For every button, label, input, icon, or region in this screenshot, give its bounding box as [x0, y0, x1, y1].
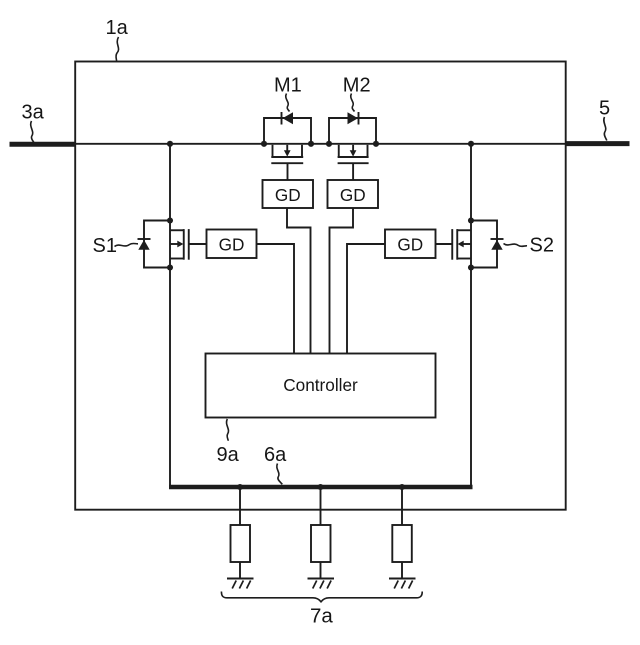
wire: M1 gate driver to controller [287, 208, 311, 354]
ground symbol 3 [389, 579, 416, 589]
wire: M2 body-diode loop [329, 118, 376, 144]
node: S1 source junction [167, 264, 173, 270]
node: bus / S1 branch [167, 141, 173, 147]
ground symbol 1 [227, 579, 254, 589]
label 6a [264, 444, 287, 484]
wire: S2 body-diode loop [471, 221, 497, 268]
label 1a [106, 17, 129, 61]
svg-text:9a: 9a [217, 444, 240, 466]
wire: M2 gate driver to controller [330, 208, 354, 354]
enclosure box 1a [75, 62, 566, 510]
node: S1 drain junction [167, 217, 173, 223]
label 9a [217, 419, 240, 466]
wire: R1 upper lead [239, 487, 241, 525]
svg-text:GD: GD [397, 235, 423, 255]
resistor R2 [311, 525, 331, 562]
controller box [206, 354, 436, 418]
wire: M1 body-diode loop [264, 118, 311, 144]
wire: right branch from bus down to line 6a [470, 144, 472, 485]
node: bus / M2 left [326, 141, 332, 147]
svg-text:GD: GD [340, 185, 366, 205]
resistor R3 [392, 525, 412, 562]
label S2 [504, 235, 554, 257]
gate driver GD box of S2 [385, 230, 436, 259]
wire: R3 upper lead [401, 487, 403, 525]
svg-text:5: 5 [599, 98, 610, 120]
transistor S2 (MOSFET symbol) [436, 229, 472, 260]
svg-text:GD: GD [219, 235, 245, 255]
label M1 [274, 74, 302, 111]
wire: common line 6a (thick) [169, 485, 473, 490]
wire: R2 lower lead [320, 562, 322, 579]
wire: S2 gate driver to controller [347, 244, 385, 354]
gate driver GD box of M1 [263, 180, 314, 208]
gate driver GD box of M2 [328, 180, 379, 208]
node: S2 drain junction [468, 217, 474, 223]
wire: R2 upper lead [320, 487, 322, 525]
transistor M1 (MOSFET symbol) [271, 145, 303, 180]
label M2 [343, 74, 371, 111]
diode: S1 body diode (cathode up) [138, 239, 151, 250]
svg-text:S2: S2 [530, 235, 554, 257]
wire: S1 body-diode loop [144, 221, 170, 268]
node: 6a / R3 tap [399, 484, 405, 490]
label S1 [93, 235, 139, 257]
wire: R1 lower lead [239, 562, 241, 579]
node: S2 source junction [468, 264, 474, 270]
gate driver GD box of S1 [207, 230, 257, 259]
node: bus / M2 right [373, 141, 379, 147]
diode: S2 body diode (cathode up) [491, 239, 504, 250]
node: 6a / R2 tap [317, 484, 323, 490]
node: 6a / R1 tap [237, 484, 243, 490]
ground symbol 2 [308, 579, 335, 589]
wire: R3 lower lead [401, 562, 403, 579]
label 5 [599, 98, 610, 141]
svg-text:M2: M2 [343, 74, 371, 96]
brace grouping 7a [221, 592, 422, 602]
svg-text:1a: 1a [106, 17, 129, 39]
svg-text:3a: 3a [22, 101, 45, 123]
label 3a [22, 101, 45, 142]
diode: M2 body diode (cathode right) [348, 112, 359, 125]
svg-text:6a: 6a [264, 444, 287, 466]
wire: S1 gate driver to controller [257, 244, 295, 354]
node: bus / M1 left [261, 141, 267, 147]
svg-text:7a: 7a [310, 605, 333, 628]
node: bus / S2 branch [468, 141, 474, 147]
transistor S1 (MOSFET symbol) [170, 229, 207, 260]
terminal lead 5 (thick) [566, 141, 630, 146]
resistor R1 [231, 525, 251, 562]
diode: M1 body diode (cathode left) [282, 112, 294, 125]
terminal lead 3a (thick) [10, 142, 76, 147]
svg-text:S1: S1 [93, 235, 117, 257]
wire: left branch from bus down to line 6a [169, 144, 171, 485]
node: bus / M1 right [308, 141, 314, 147]
svg-text:Controller: Controller [283, 375, 358, 395]
svg-text:M1: M1 [274, 74, 302, 96]
transistor M2 (MOSFET symbol) [338, 145, 369, 180]
svg-text:GD: GD [275, 185, 301, 205]
wire: bus conductor 3a to 5 [74, 143, 566, 145]
